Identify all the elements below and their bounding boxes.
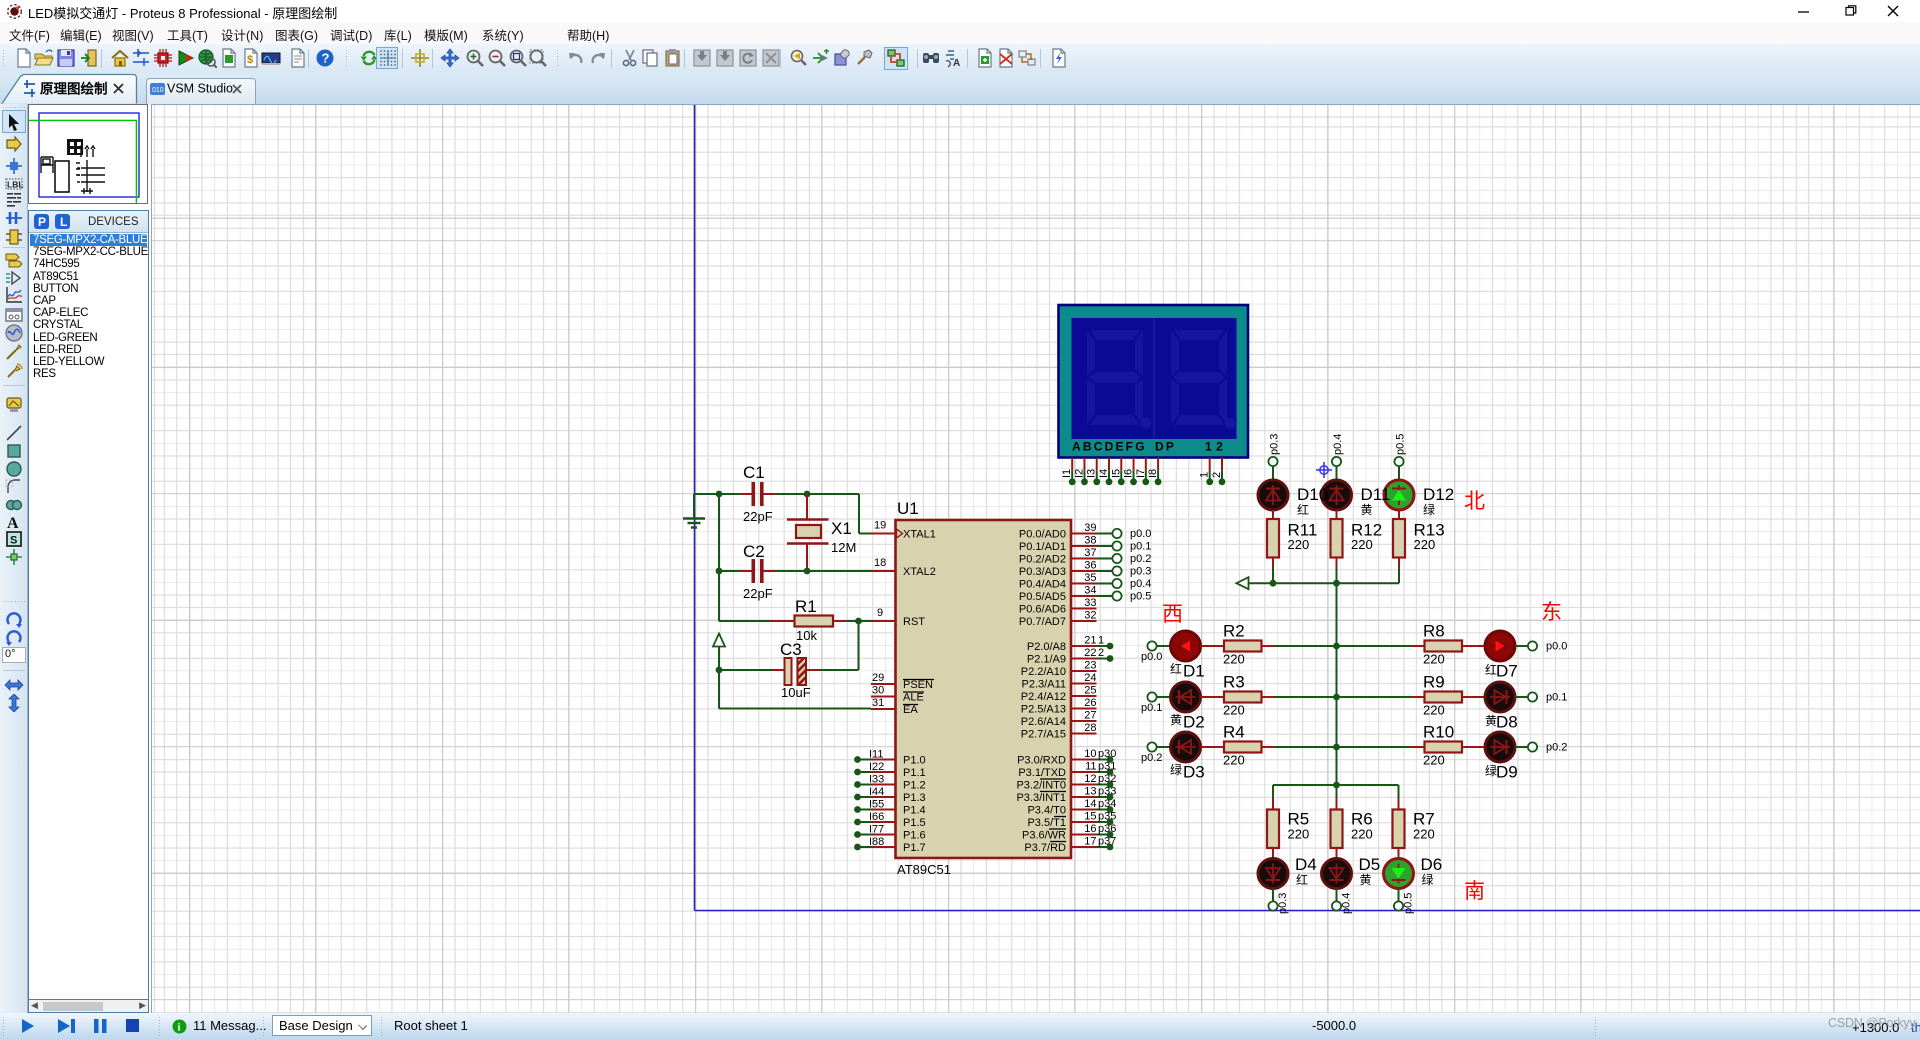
wire r1 to c3 right leg bbox=[819, 621, 859, 670]
U1 pin P1.3 wire+label I44 bbox=[854, 786, 926, 804]
wire terminal to LED D12 bbox=[1398, 466, 1400, 480]
wire R2 to center bus bbox=[1274, 645, 1337, 647]
svg-text:黄: 黄 bbox=[1360, 873, 1372, 887]
svg-text:p0.0: p0.0 bbox=[1141, 651, 1162, 663]
wire R12 to north bus bbox=[1336, 568, 1338, 583]
U1 left pin PSEN (29) bbox=[871, 672, 934, 691]
svg-text:P1.2: P1.2 bbox=[903, 780, 926, 792]
node junction (807,571) bbox=[804, 568, 811, 575]
U1 left pin RST (9) bbox=[871, 607, 925, 628]
svg-text:P3.3/INT1: P3.3/INT1 bbox=[1016, 792, 1066, 804]
resistor R2 220 bbox=[1201, 622, 1275, 667]
svg-text:15: 15 bbox=[1084, 811, 1096, 823]
resistor R13 220 bbox=[1393, 510, 1445, 568]
svg-text:220: 220 bbox=[1288, 827, 1310, 842]
svg-text:P0.4/AD4: P0.4/AD4 bbox=[1019, 579, 1066, 591]
capacitor C1 bbox=[740, 463, 775, 524]
U1 pin P3.6/WR (16) net p36 bbox=[1022, 823, 1116, 842]
U1 pin P3.1/TXD (11) net p31 bbox=[1018, 761, 1116, 780]
svg-text:东: 东 bbox=[1541, 601, 1562, 624]
svg-text:25: 25 bbox=[1084, 685, 1096, 697]
svg-text:220: 220 bbox=[1423, 753, 1445, 768]
svg-text:p32: p32 bbox=[1098, 773, 1116, 785]
svg-text:R1: R1 bbox=[795, 597, 817, 616]
node junction (719,571) bbox=[716, 568, 723, 575]
wire terminal to LED D1 bbox=[1157, 645, 1172, 647]
svg-text:33: 33 bbox=[1084, 597, 1096, 609]
svg-text:R10: R10 bbox=[1423, 723, 1454, 742]
svg-text:26: 26 bbox=[1084, 697, 1096, 709]
svg-text:P1.3: P1.3 bbox=[903, 792, 926, 804]
display pin 8 wire net I8 bbox=[1147, 458, 1161, 486]
svg-text:I2: I2 bbox=[1073, 469, 1085, 478]
svg-text:黄: 黄 bbox=[1361, 503, 1373, 517]
svg-text:220: 220 bbox=[1223, 753, 1245, 768]
label D11 (黄) bbox=[1361, 485, 1391, 517]
terminal p0.1 east bbox=[1528, 692, 1568, 704]
terminal p0.5 south bbox=[1394, 893, 1415, 914]
resistor R4 220 bbox=[1201, 723, 1275, 768]
svg-text:原理图绘制: 原理图绘制 bbox=[40, 81, 108, 97]
svg-text:17: 17 bbox=[1084, 836, 1096, 848]
U1 pin P3.7/RD (17) net p37 bbox=[1024, 836, 1116, 855]
svg-text:?: ? bbox=[322, 51, 330, 66]
svg-text:P2.6/A14: P2.6/A14 bbox=[1021, 716, 1066, 728]
node junction (1336.5,785) bbox=[1333, 782, 1340, 789]
svg-text:28: 28 bbox=[1084, 722, 1096, 734]
svg-text:I44: I44 bbox=[869, 786, 884, 798]
svg-text:P1.5: P1.5 bbox=[903, 817, 926, 829]
svg-text:P: P bbox=[38, 215, 46, 229]
svg-text:P0.7/AD7: P0.7/AD7 bbox=[1019, 616, 1066, 628]
svg-text:D11: D11 bbox=[1361, 485, 1391, 504]
svg-text:14: 14 bbox=[1084, 798, 1096, 810]
svg-text:P0.1/AD1: P0.1/AD1 bbox=[1019, 541, 1066, 553]
svg-text:绿: 绿 bbox=[1423, 502, 1435, 517]
svg-text:I77: I77 bbox=[869, 824, 884, 836]
terminal p0.1 at U1 bbox=[1097, 541, 1152, 553]
svg-text:21: 21 bbox=[1084, 635, 1096, 647]
svg-text:p0.5: p0.5 bbox=[1403, 893, 1415, 914]
svg-text:p0.4: p0.4 bbox=[1130, 578, 1151, 590]
LED D7 (红) bbox=[1485, 631, 1518, 681]
resistor R7 220 bbox=[1393, 798, 1435, 859]
svg-text:16: 16 bbox=[1084, 823, 1096, 835]
LED D2 (黄) bbox=[1170, 682, 1205, 732]
svg-text:1: 1 bbox=[1098, 635, 1104, 647]
svg-text:2: 2 bbox=[1098, 647, 1104, 659]
wire center bus to R8 bbox=[1337, 645, 1412, 647]
U1 left pin XTAL2 (18) bbox=[871, 557, 936, 578]
svg-text:D3: D3 bbox=[1183, 763, 1205, 782]
svg-text:D4: D4 bbox=[1295, 855, 1317, 874]
svg-text:30: 30 bbox=[872, 685, 884, 697]
svg-text:P3.2/INT0: P3.2/INT0 bbox=[1016, 780, 1066, 792]
svg-text:35: 35 bbox=[1084, 572, 1096, 584]
svg-text:2: 2 bbox=[1211, 472, 1223, 478]
node junction (1336.5,697) bbox=[1333, 694, 1340, 701]
LED D1 (红) bbox=[1170, 631, 1205, 681]
label D4 (红) bbox=[1295, 855, 1317, 887]
svg-text:D7: D7 bbox=[1496, 662, 1518, 681]
U1 pin P2.3/A11 (24) bbox=[1022, 672, 1097, 691]
wire LED D9 to terminal bbox=[1515, 746, 1528, 748]
resistor R1 bbox=[770, 597, 846, 643]
svg-text:P2.3/A11: P2.3/A11 bbox=[1022, 679, 1066, 691]
node junction (1273,583.2) bbox=[1270, 580, 1277, 587]
svg-text:36: 36 bbox=[1084, 560, 1096, 572]
svg-text:23: 23 bbox=[1084, 660, 1096, 672]
U1 left pin ALE (30) bbox=[871, 685, 924, 704]
svg-text:10uF: 10uF bbox=[781, 685, 811, 700]
svg-text:32: 32 bbox=[1084, 610, 1096, 622]
svg-text:p0.4: p0.4 bbox=[1341, 893, 1353, 914]
svg-text:D8: D8 bbox=[1496, 713, 1518, 732]
wire rst row y=621 bbox=[719, 620, 871, 622]
terminal p0.4 south bbox=[1332, 893, 1353, 914]
U1 pin P0.3/AD3 (36) bbox=[1019, 560, 1097, 579]
svg-text:p0.3: p0.3 bbox=[1269, 434, 1281, 455]
svg-text:C2: C2 bbox=[743, 542, 765, 561]
svg-text:绿: 绿 bbox=[1170, 762, 1182, 777]
terminal p0.5 north bbox=[1394, 434, 1406, 467]
U1 pin P2.0/A8 (21) bbox=[1027, 635, 1114, 654]
svg-text:34: 34 bbox=[1084, 585, 1096, 597]
label D10 (红) bbox=[1297, 485, 1328, 517]
resistor R11 220 bbox=[1267, 510, 1317, 568]
sheet border (blue) bbox=[695, 104, 1920, 911]
center bus wire x=1336.5 bbox=[1336, 583, 1338, 785]
LED D12 bbox=[1384, 480, 1414, 510]
svg-text:P0.5/AD5: P0.5/AD5 bbox=[1019, 591, 1066, 603]
svg-text:p36: p36 bbox=[1098, 823, 1116, 835]
node junction (807,494) bbox=[804, 491, 811, 498]
label D5 (黄) bbox=[1359, 855, 1381, 887]
capacitor C3 (electrolytic) bbox=[719, 640, 819, 700]
svg-text:I5: I5 bbox=[1110, 469, 1122, 478]
svg-text:RST: RST bbox=[903, 616, 925, 628]
wire terminal to LED D11 bbox=[1336, 466, 1338, 480]
north bus wire y=583.2 bbox=[1248, 582, 1399, 584]
terminal p0.3 at U1 bbox=[1097, 566, 1152, 578]
ground bbox=[683, 494, 705, 528]
wire terminal to LED D10 bbox=[1272, 466, 1274, 480]
terminal p0.4 at U1 bbox=[1097, 578, 1152, 590]
U1 pin P1.4 wire+label I55 bbox=[854, 799, 926, 817]
display pin 5 wire net I5 bbox=[1110, 458, 1124, 486]
svg-text:$: $ bbox=[247, 54, 253, 66]
node junction (719,670) bbox=[716, 667, 723, 674]
terminal p0.4 north bbox=[1332, 434, 1344, 467]
U1 pin P0.4/AD4 (35) bbox=[1019, 572, 1097, 591]
svg-text:I55: I55 bbox=[869, 799, 884, 811]
svg-text:220: 220 bbox=[1423, 652, 1445, 667]
svg-text:P1.1: P1.1 bbox=[903, 767, 926, 779]
svg-text:I7: I7 bbox=[1135, 469, 1147, 478]
svg-text:I6: I6 bbox=[1123, 469, 1135, 478]
svg-text:p0.3: p0.3 bbox=[1130, 566, 1151, 578]
svg-text:37: 37 bbox=[1084, 547, 1096, 559]
7-segment display DS1 (7SEG-MPX2-CA-BLUE) bbox=[1059, 305, 1249, 458]
svg-text:D1: D1 bbox=[1183, 662, 1205, 681]
wire power to ea x=719 bbox=[718, 647, 720, 709]
U1 pin P0.7/AD7 (32) bbox=[1019, 610, 1097, 629]
node junction (1336.5,583.2) bbox=[1333, 580, 1340, 587]
U1 pin P1.0 wire+label I11 bbox=[854, 749, 926, 767]
svg-text:R4: R4 bbox=[1223, 723, 1245, 742]
svg-text:P1.6: P1.6 bbox=[903, 830, 926, 842]
svg-text:27: 27 bbox=[1084, 710, 1096, 722]
wire R11 to north bus bbox=[1272, 568, 1274, 583]
svg-text:220: 220 bbox=[1423, 703, 1445, 718]
power terminal (up arrow) bbox=[713, 634, 725, 647]
LED D6 bbox=[1384, 859, 1414, 889]
svg-text:P3.5/T1: P3.5/T1 bbox=[1027, 817, 1066, 829]
node junction (719,494) bbox=[716, 491, 723, 498]
display pin 2 wire net I2 bbox=[1073, 458, 1087, 486]
svg-text:R9: R9 bbox=[1423, 673, 1445, 692]
svg-text:I4: I4 bbox=[1098, 469, 1110, 478]
svg-text:D2: D2 bbox=[1183, 713, 1205, 732]
svg-text:红: 红 bbox=[1296, 872, 1308, 887]
capacitor C2 bbox=[740, 542, 775, 601]
terminal p0.2 west bbox=[1141, 742, 1162, 764]
svg-text:P1.4: P1.4 bbox=[903, 805, 926, 817]
svg-text:C1: C1 bbox=[743, 463, 765, 482]
svg-text:p0.5: p0.5 bbox=[1130, 591, 1151, 603]
terminal p0.0 east bbox=[1528, 641, 1568, 653]
svg-text:EA: EA bbox=[903, 704, 918, 716]
svg-text:P2.1/A9: P2.1/A9 bbox=[1027, 654, 1066, 666]
svg-text:I66: I66 bbox=[869, 811, 884, 823]
svg-text:I88: I88 bbox=[869, 836, 884, 848]
svg-text:D9: D9 bbox=[1496, 763, 1518, 782]
svg-text:9: 9 bbox=[877, 607, 883, 619]
svg-text:P0.0/AD0: P0.0/AD0 bbox=[1019, 529, 1066, 541]
svg-text:p0.2: p0.2 bbox=[1546, 742, 1567, 754]
svg-text:220: 220 bbox=[1413, 827, 1435, 842]
svg-text:C3: C3 bbox=[780, 640, 802, 659]
display pin 4 wire net I4 bbox=[1098, 458, 1112, 486]
U1 pin P0.2/AD2 (37) bbox=[1019, 547, 1097, 566]
svg-text:红: 红 bbox=[1297, 502, 1309, 517]
svg-text:22pF: 22pF bbox=[743, 509, 773, 524]
svg-text:黄: 黄 bbox=[1170, 713, 1182, 727]
svg-text:1: 1 bbox=[1199, 472, 1211, 478]
wire xtal2 row y=571 bbox=[719, 570, 871, 572]
svg-text:D12: D12 bbox=[1423, 485, 1454, 504]
svg-text:p0.1: p0.1 bbox=[1130, 541, 1151, 553]
svg-text:VSM Studio: VSM Studio bbox=[167, 82, 233, 96]
svg-text:220: 220 bbox=[1414, 537, 1436, 552]
svg-text:U1: U1 bbox=[897, 499, 919, 518]
U1 pin P2.6/A14 (27) bbox=[1021, 710, 1097, 729]
svg-text:220: 220 bbox=[1223, 703, 1245, 718]
wire center bus to R9 bbox=[1337, 696, 1412, 698]
display pin 1 wire net I1 bbox=[1061, 458, 1075, 486]
LED D11 bbox=[1322, 480, 1352, 510]
U1 pin P1.5 wire+label I66 bbox=[854, 811, 926, 829]
display pin 9 wire net 1 bbox=[1199, 458, 1213, 486]
svg-text:220: 220 bbox=[1351, 827, 1373, 842]
svg-text:R2: R2 bbox=[1223, 622, 1245, 641]
resistor R3 220 bbox=[1201, 673, 1275, 718]
U1 pin P3.4/T0 (14) net p34 bbox=[1027, 798, 1116, 817]
svg-text:红: 红 bbox=[1170, 661, 1182, 676]
svg-text:AT89C51: AT89C51 bbox=[897, 862, 951, 877]
bus arrow terminal (left) bbox=[1237, 577, 1249, 589]
LED D10 bbox=[1258, 480, 1288, 510]
svg-text:X1: X1 bbox=[831, 519, 852, 538]
svg-text:22: 22 bbox=[1084, 647, 1096, 659]
svg-text:i: i bbox=[178, 1022, 181, 1034]
U1 pin P1.1 wire+label I22 bbox=[854, 761, 926, 779]
south bus wire y=785 bbox=[1273, 785, 1399, 798]
U1 pin P2.7/A15 (28) bbox=[1021, 722, 1097, 741]
terminal p0.5 at U1 bbox=[1097, 591, 1152, 603]
svg-text:I11: I11 bbox=[869, 749, 883, 761]
U1 pin P0.0/AD0 (39) bbox=[1019, 522, 1097, 541]
wire terminal to LED D3 bbox=[1157, 746, 1172, 748]
svg-text:P3.7/RD: P3.7/RD bbox=[1024, 842, 1066, 854]
wire LED D4 to terminal p0.3 bbox=[1272, 889, 1274, 902]
svg-text:PSEN: PSEN bbox=[903, 679, 933, 691]
svg-text:A: A bbox=[953, 58, 960, 68]
terminal p0.3 north bbox=[1268, 434, 1280, 467]
svg-text:220: 220 bbox=[1223, 652, 1245, 667]
U1 pin P1.6 wire+label I77 bbox=[854, 824, 926, 842]
svg-text:12: 12 bbox=[1205, 440, 1227, 454]
svg-text:I1: I1 bbox=[1061, 469, 1073, 478]
svg-text:220: 220 bbox=[1288, 537, 1310, 552]
crystal X1 bbox=[787, 494, 856, 571]
svg-text:I8: I8 bbox=[1147, 469, 1159, 478]
wire R13 to north bus bbox=[1398, 568, 1400, 583]
label D6 (绿) bbox=[1421, 855, 1443, 887]
U1 pin P0.5/AD5 (34) bbox=[1019, 585, 1097, 604]
svg-text:XTAL1: XTAL1 bbox=[903, 529, 936, 541]
svg-text:19: 19 bbox=[874, 520, 886, 532]
wire terminal to LED D2 bbox=[1157, 696, 1172, 698]
U1 pin P1.2 wire+label I33 bbox=[854, 774, 926, 792]
svg-text:A: A bbox=[7, 515, 19, 531]
svg-text:p30: p30 bbox=[1098, 748, 1116, 760]
svg-text:P0.3/AD3: P0.3/AD3 bbox=[1019, 566, 1066, 578]
resistor R10 220 bbox=[1411, 723, 1485, 768]
svg-text:P2.0/A8: P2.0/A8 bbox=[1027, 641, 1066, 653]
svg-text:p0.5: p0.5 bbox=[1395, 434, 1407, 455]
svg-text:p0.3: p0.3 bbox=[1277, 893, 1289, 914]
display pin 10 wire net 2 bbox=[1211, 458, 1225, 486]
svg-text:L: L bbox=[60, 215, 67, 229]
label D12 (绿) bbox=[1423, 485, 1454, 517]
U1 pin P3.5/T1 (15) net p35 bbox=[1027, 811, 1116, 830]
svg-text:R3: R3 bbox=[1223, 673, 1245, 692]
U1 pin P0.6/AD6 (33) bbox=[1019, 597, 1097, 616]
svg-text:R8: R8 bbox=[1423, 622, 1445, 641]
U1 pin P3.3/INT1 (13) net p33 bbox=[1016, 786, 1116, 805]
svg-text:D5: D5 bbox=[1359, 855, 1381, 874]
svg-text:I33: I33 bbox=[869, 774, 884, 786]
wire LED D6 to terminal p0.5 bbox=[1398, 889, 1400, 902]
svg-text:P2.2/A10: P2.2/A10 bbox=[1021, 666, 1066, 678]
svg-text:XTAL2: XTAL2 bbox=[903, 566, 936, 578]
svg-text:29: 29 bbox=[872, 672, 884, 684]
svg-text:D6: D6 bbox=[1421, 855, 1443, 874]
svg-text:北: 北 bbox=[1464, 490, 1485, 513]
resistor R5 220 bbox=[1267, 798, 1309, 859]
svg-text:LBL: LBL bbox=[7, 179, 24, 189]
display pin 7 wire net I7 bbox=[1135, 458, 1149, 486]
U1 pin P1.7 wire+label I88 bbox=[854, 836, 926, 854]
U1 pin P0.1/AD1 (38) bbox=[1019, 535, 1097, 554]
resistor R8 220 bbox=[1411, 622, 1485, 667]
LED D3 (绿) bbox=[1170, 732, 1205, 782]
svg-text:p0.0: p0.0 bbox=[1130, 528, 1151, 540]
U1 left pin XTAL1 (19) bbox=[871, 520, 936, 541]
resistor R9 220 bbox=[1411, 673, 1485, 718]
svg-text:p0.2: p0.2 bbox=[1130, 553, 1151, 565]
svg-text:220: 220 bbox=[1351, 537, 1373, 552]
svg-text:010: 010 bbox=[152, 87, 164, 94]
wire LED D8 to terminal bbox=[1515, 696, 1528, 698]
svg-text:南: 南 bbox=[1464, 880, 1485, 903]
svg-text:绿: 绿 bbox=[1422, 872, 1434, 887]
U1 pin P2.4/A12 (25) bbox=[1021, 685, 1097, 704]
terminal p0.2 east bbox=[1528, 742, 1568, 754]
wire top rail y=494 bbox=[694, 494, 871, 534]
svg-text:p31: p31 bbox=[1098, 761, 1116, 773]
svg-text:p0.1: p0.1 bbox=[1141, 702, 1162, 714]
LED D9 (绿) bbox=[1485, 732, 1518, 782]
svg-text:39: 39 bbox=[1084, 522, 1096, 534]
terminal p0.0 west bbox=[1141, 641, 1162, 663]
svg-text:24: 24 bbox=[1084, 672, 1096, 684]
node junction (858.5,621) bbox=[855, 618, 862, 625]
LED D8 (黄) bbox=[1485, 682, 1518, 732]
terminal p0.0 at U1 bbox=[1097, 528, 1152, 540]
wire LED D7 to terminal bbox=[1515, 645, 1528, 647]
node junction (1336.5,747) bbox=[1333, 744, 1340, 751]
svg-text:P3.4/T0: P3.4/T0 bbox=[1027, 805, 1066, 817]
U1 left pin EA (31) bbox=[871, 697, 918, 716]
svg-text:P3.0/RXD: P3.0/RXD bbox=[1017, 755, 1066, 767]
svg-text:p0.2: p0.2 bbox=[1141, 752, 1162, 764]
svg-text:11: 11 bbox=[1085, 761, 1096, 773]
svg-text:I3: I3 bbox=[1086, 469, 1098, 478]
terminal p0.1 west bbox=[1141, 692, 1162, 714]
origin marker (blue) bbox=[1316, 462, 1332, 478]
svg-text:P2.4/A12: P2.4/A12 bbox=[1021, 691, 1066, 703]
svg-text:p0.0: p0.0 bbox=[1546, 641, 1567, 653]
svg-text:P3.6/WR: P3.6/WR bbox=[1022, 830, 1066, 842]
op-amp U1 AT89C51 body bbox=[896, 499, 1072, 877]
wire center bus to R10 bbox=[1337, 746, 1412, 748]
svg-text:p34: p34 bbox=[1098, 798, 1116, 810]
svg-text:P2.5/A13: P2.5/A13 bbox=[1021, 704, 1066, 716]
svg-text:p0.4: p0.4 bbox=[1332, 434, 1344, 455]
svg-text:31: 31 bbox=[872, 697, 884, 709]
U1 pin P3.0/RXD (10) net p30 bbox=[1017, 748, 1116, 767]
wire left vertical x=719 bbox=[718, 494, 720, 621]
svg-text:12M: 12M bbox=[831, 540, 856, 555]
svg-text:P3.1/TXD: P3.1/TXD bbox=[1018, 767, 1066, 779]
svg-text:10: 10 bbox=[1084, 748, 1096, 760]
terminal p0.2 at U1 bbox=[1097, 553, 1152, 565]
svg-text:P1.7: P1.7 bbox=[903, 842, 926, 854]
svg-text:p33: p33 bbox=[1098, 786, 1116, 798]
U1 pin P2.2/A10 (23) bbox=[1021, 660, 1097, 679]
